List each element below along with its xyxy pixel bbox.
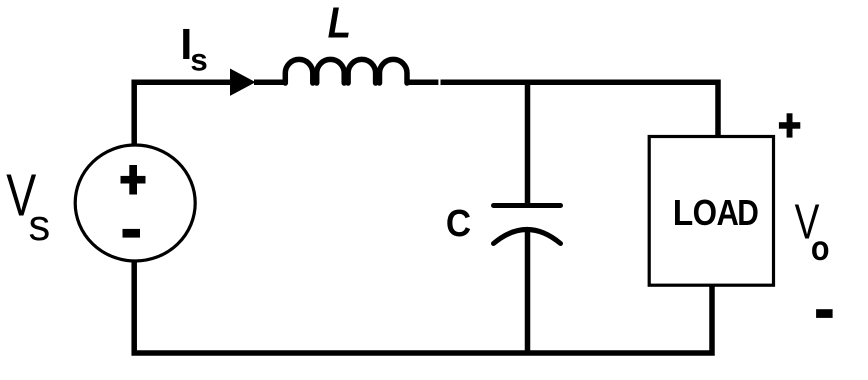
- label Vs: [6, 164, 50, 250]
- - polarity mark inside source: [123, 229, 141, 238]
- voltage source VS circle: [75, 145, 195, 261]
- svg-text:L: L: [328, 0, 351, 47]
- capacitor top stem wire: [525, 82, 531, 205]
- + output terminal mark: [779, 113, 800, 137]
- svg-text:A: A: [717, 193, 739, 234]
- inductor L: [285, 59, 407, 83]
- capacitor C curved plate: [494, 230, 561, 244]
- svg-text:C: C: [446, 202, 471, 245]
- bottom wire from source through capacitor to load: [134, 260, 712, 353]
- svg-text:s: s: [29, 202, 51, 250]
- + polarity mark inside source: [121, 165, 146, 195]
- wire from source top to arrow: [134, 82, 230, 146]
- svg-text:L: L: [673, 193, 694, 234]
- svg-text:D: D: [737, 193, 759, 233]
- wire from gap to load top corner: [441, 82, 719, 138]
- label LOAD: [673, 193, 759, 234]
- svg-text:s: s: [190, 42, 208, 78]
- svg-text:O: O: [693, 193, 717, 234]
- capacitor C top plate: [494, 203, 561, 208]
- wire from arrow to inductor: [254, 79, 287, 85]
- svg-text:o: o: [811, 229, 830, 269]
- load box: [649, 137, 773, 286]
- label Vo: [795, 194, 830, 268]
- capacitor bottom stem wire: [525, 231, 531, 353]
- wire from inductor to gap: [406, 79, 438, 85]
- - output terminal mark: [816, 309, 833, 318]
- current arrow Is: [230, 69, 256, 96]
- label Is: [180, 21, 208, 78]
